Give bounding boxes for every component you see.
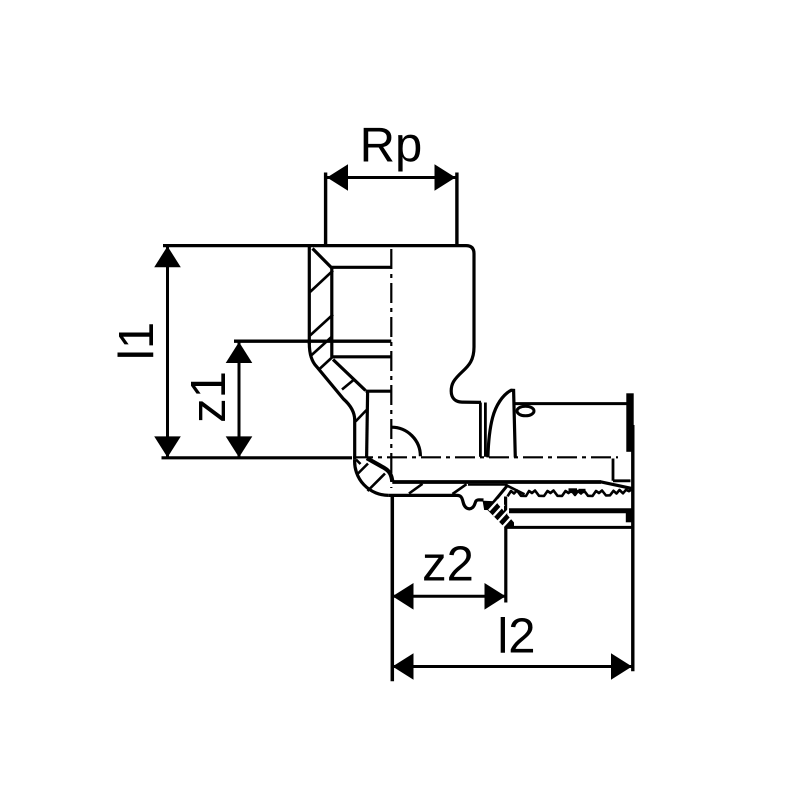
- dimension line z2: [393, 595, 506, 598]
- extension line l2 right: [631, 425, 634, 671]
- arrowhead l2 left: [393, 653, 414, 680]
- flange lower nub: [626, 513, 632, 523]
- extension line Rp left: [324, 173, 327, 246]
- neck inner wall diagonal: [333, 360, 366, 391]
- press ring double line right: [484, 403, 487, 457]
- dimension line Rp: [327, 176, 456, 179]
- thread top inner line: [332, 266, 392, 269]
- thread hatch line 1: [310, 271, 333, 293]
- elbow inner bend (bold): [367, 458, 393, 481]
- press indicator black head: [484, 502, 497, 509]
- dimension line l1: [166, 247, 169, 457]
- svg-text:z1: z1: [182, 371, 236, 423]
- body left outer wall: [308, 247, 311, 344]
- thread hatch line 2: [310, 315, 333, 336]
- rib-start diagonal line: [506, 485, 525, 495]
- extension line Rp right: [455, 173, 458, 246]
- bore inner wall vertical: [367, 393, 368, 459]
- arrowhead l1 top: [154, 246, 181, 267]
- body top face with right rounded corner and right outer wall + S-neck + ledge: [163, 246, 481, 403]
- thread inner wall left: [330, 267, 333, 357]
- neck hatch tick 3: [356, 410, 367, 422]
- pipe end mark vertical: [612, 459, 615, 481]
- sleeve flared mouth (sail): [488, 390, 515, 457]
- vertical centerline of threaded branch (dash-dot): [390, 249, 392, 488]
- bend corner hatch 1: [356, 460, 361, 465]
- extension line l1/z1 bottom (horizontal axis extension): [162, 456, 353, 459]
- arrowhead l2 right: [611, 653, 632, 680]
- svg-text:l2: l2: [497, 609, 535, 663]
- arrowhead z2 right: [485, 583, 506, 610]
- sleeve lower left edge: [504, 497, 507, 528]
- arrowhead z1 bottom: [226, 436, 253, 457]
- press ring double line left: [479, 403, 482, 457]
- arrowhead z2 left: [393, 583, 414, 610]
- elbow outer corner arc: [355, 459, 389, 495]
- o-ring indicator ellipse: [517, 406, 534, 416]
- svg-text:Rp: Rp: [360, 119, 423, 173]
- bore line lower half (bold, to flange): [392, 480, 601, 484]
- bottom wall hatch tick 2: [453, 484, 467, 494]
- dimension line z1: [238, 343, 241, 458]
- bore quarter arc at bend: [391, 427, 420, 456]
- horizontal centerline of press branch (dash-dot): [353, 456, 618, 458]
- insert tip taper line: [601, 482, 635, 489]
- sleeve lower bottom line: [506, 526, 634, 529]
- neck hatch tick 1: [320, 357, 333, 369]
- insert rib zigzag: [508, 489, 635, 496]
- svg-text:l1: l1: [110, 322, 164, 360]
- thin line under bore line: [468, 484, 508, 486]
- extension line z1 top (thread plane, crosses body to centerline): [234, 340, 391, 343]
- neck hatch tick 2: [342, 380, 354, 390]
- bottom wall hatch tick 1: [409, 484, 423, 494]
- thread bottom shoulder line: [332, 355, 392, 358]
- press indicator hatched wedge: [485, 500, 514, 528]
- arrowhead l1 bottom: [154, 436, 181, 457]
- insert bottom thick line: [509, 508, 634, 513]
- insert rib dark blob 1: [569, 488, 578, 493]
- pipe end mark horizontal: [613, 479, 631, 482]
- bore step line: [366, 390, 392, 393]
- extension line z2 right: [504, 528, 507, 603]
- bend corner hatch 2: [368, 474, 386, 492]
- svg-text:z2: z2: [422, 538, 474, 592]
- thread hatch line 3: [310, 337, 332, 357]
- extension line z2/l2 left: [391, 496, 395, 681]
- neck outer wall: [309, 343, 354, 459]
- wedge diagonal line: [493, 485, 509, 504]
- sleeve top line: [515, 402, 627, 405]
- insert rib dark blob 2: [579, 489, 586, 493]
- thread chamfer top left: [313, 249, 332, 269]
- arrowhead z1 top: [226, 342, 253, 363]
- arrowhead Rp left: [327, 164, 348, 191]
- flange end bar (thick): [626, 393, 633, 452]
- dimension line l2: [393, 665, 633, 668]
- arrowhead Rp right: [435, 164, 456, 191]
- bend corner hatch 1b: [358, 464, 369, 475]
- elbow bottom face with groove dip: [389, 495, 484, 508]
